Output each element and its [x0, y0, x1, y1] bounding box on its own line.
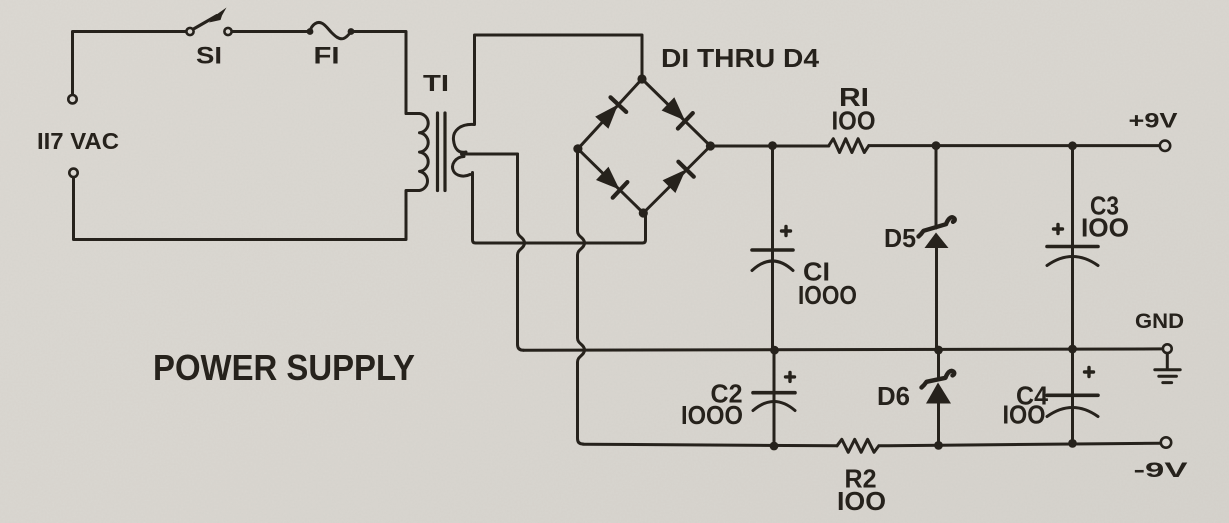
svg-text:FI: FI: [314, 43, 340, 70]
svg-text:II7 VAC: II7 VAC: [37, 128, 119, 154]
svg-text:POWER SUPPLY: POWER SUPPLY: [153, 347, 415, 388]
svg-text:IOOO: IOOO: [798, 280, 857, 310]
svg-text:DI THRU D4: DI THRU D4: [661, 43, 820, 73]
svg-text:D6: D6: [877, 381, 910, 411]
svg-text:GND: GND: [1135, 310, 1184, 333]
svg-text:IOO: IOO: [837, 486, 886, 516]
svg-text:D5: D5: [884, 223, 916, 253]
svg-text:IOO: IOO: [1081, 213, 1129, 243]
svg-text:+9V: +9V: [1129, 110, 1178, 133]
svg-text:SI: SI: [196, 43, 222, 70]
svg-text:TI: TI: [423, 70, 449, 96]
svg-text:IOO: IOO: [832, 106, 876, 136]
svg-text:IOO: IOO: [1003, 400, 1046, 430]
svg-text:-9V: -9V: [1134, 459, 1188, 482]
svg-text:IOOO: IOOO: [681, 400, 743, 430]
